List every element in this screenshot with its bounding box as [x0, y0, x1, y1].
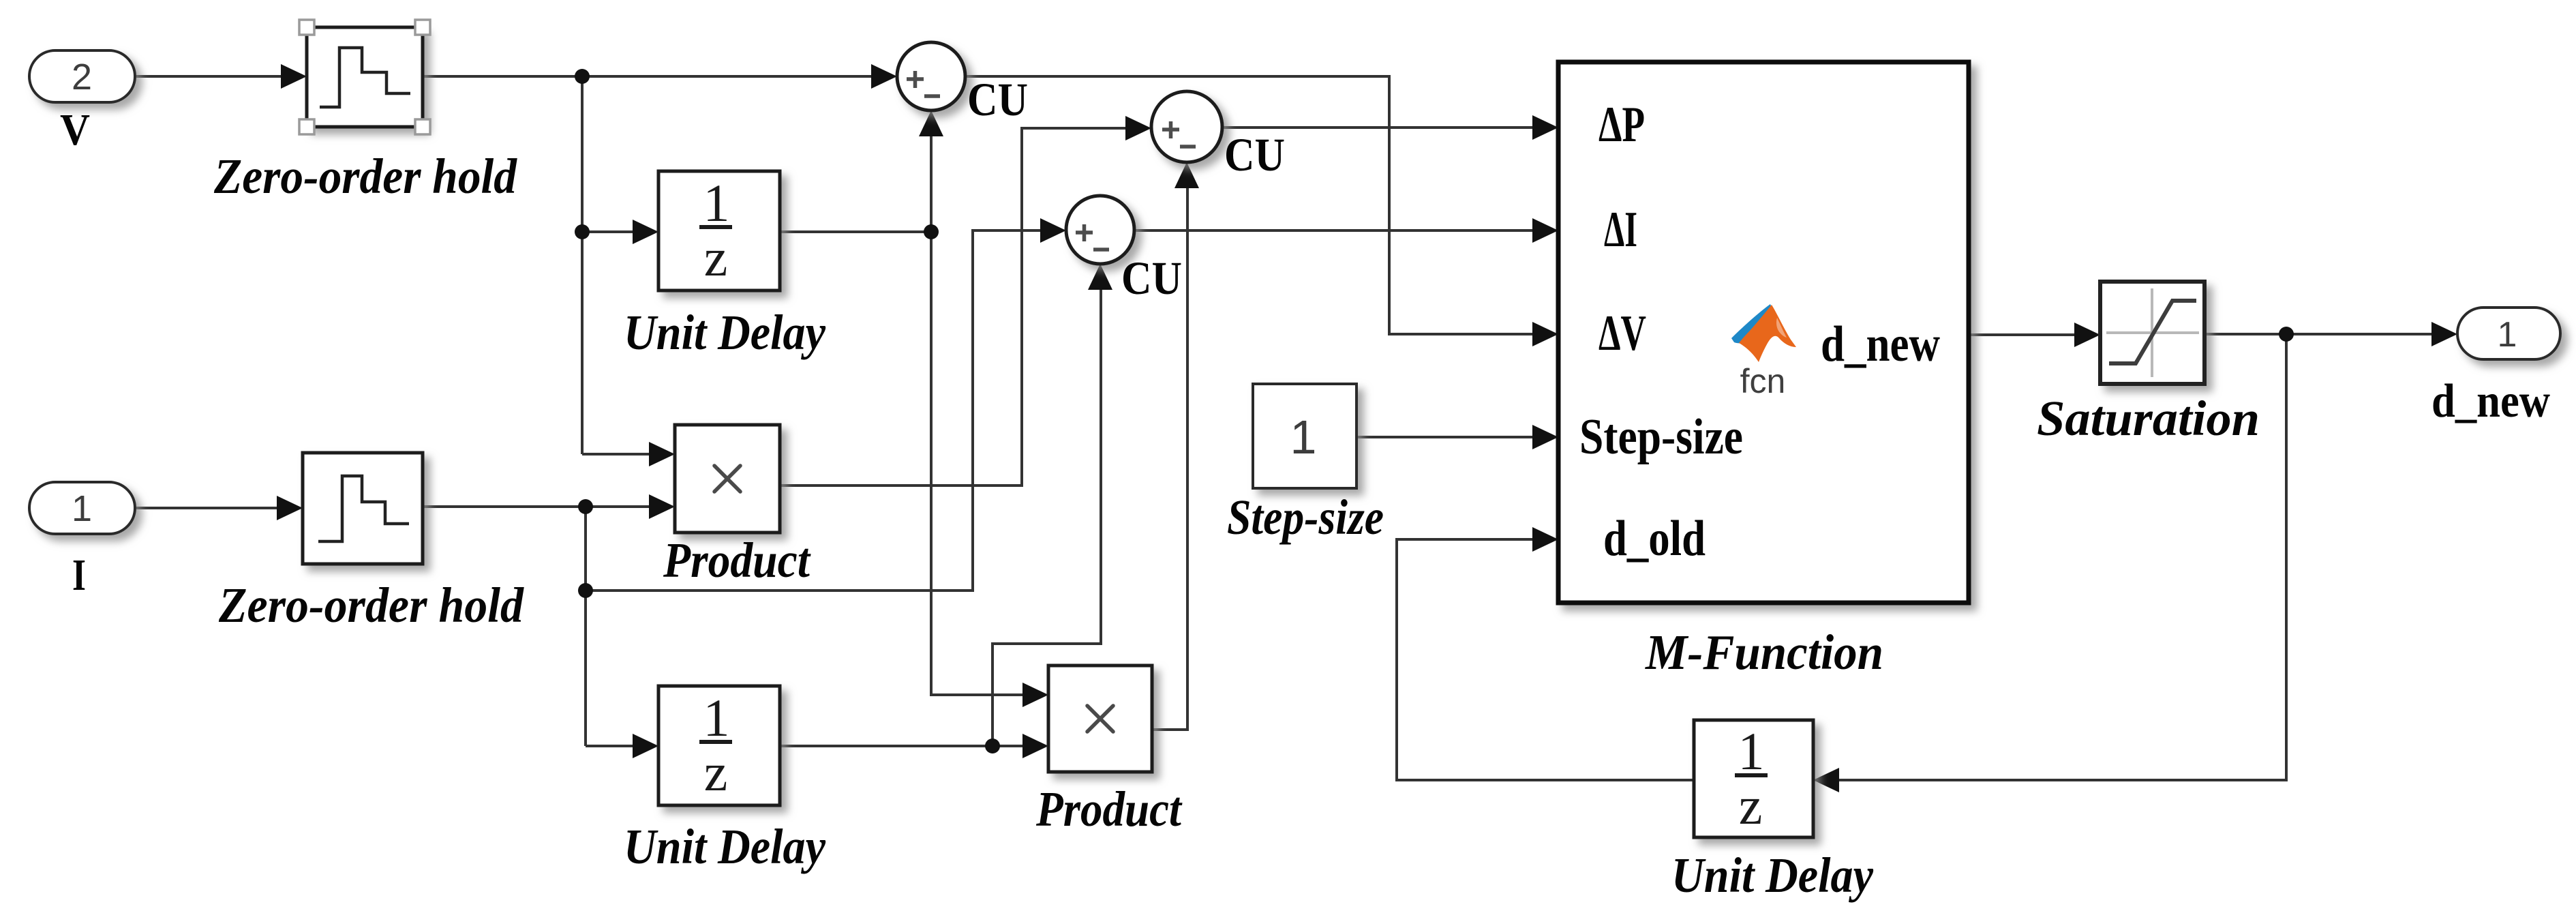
svg-text:1: 1 [72, 488, 92, 529]
svg-text:Zero-order hold: Zero-order hold [218, 578, 524, 633]
arrowhead into dI port [1532, 218, 1558, 243]
svg-text:ΔI: ΔI [1604, 202, 1637, 258]
wire V corner into Product1 input1 [582, 453, 652, 455]
arrowhead into sum CU3 bottom [1088, 264, 1112, 290]
arrowhead into Unit Delay top [633, 220, 658, 244]
junction node E [2279, 327, 2294, 342]
arrowhead into Product1 input2 [649, 494, 675, 519]
wire Unit Delay top output to node B [780, 230, 931, 233]
svg-text:ΔP: ΔP [1598, 97, 1645, 153]
svg-text:1: 1 [1738, 721, 1765, 781]
svg-text:ΔV: ΔV [1598, 305, 1646, 361]
arrowhead into Product1 input1 [649, 442, 675, 466]
svg-text:Unit Delay: Unit Delay [624, 819, 826, 874]
junction node D [985, 738, 1000, 753]
wire node B up to sum CU1 minus input [930, 136, 933, 232]
wire node C2 to sum CU3 left input [586, 230, 1043, 591]
inport 1 (I) [29, 482, 135, 534]
svg-text:Product: Product [663, 533, 811, 588]
arrowhead into Product2 input1 [1022, 683, 1048, 707]
arrowhead into Zero-order hold V [281, 64, 307, 89]
svg-text:CU: CU [1224, 129, 1285, 181]
wire I inport to Zero-order hold2 [135, 507, 279, 509]
zero-order hold ZOH1 [299, 20, 430, 134]
svg-text:z: z [1739, 776, 1763, 835]
svg-text:CU: CU [1121, 252, 1182, 304]
junction node A2 [575, 224, 590, 239]
inport 2 (V) [29, 50, 135, 102]
wire sum CU3 output to dI port of M-Function [1134, 229, 1535, 232]
arrowhead into dP port [1532, 115, 1558, 140]
svg-text:V: V [60, 105, 90, 155]
svg-text:Step-size: Step-size [1227, 490, 1384, 545]
junction node C2 [578, 583, 593, 598]
wire feedback from node E down and left to Unit Delay input [1839, 334, 2286, 780]
svg-text:1: 1 [703, 688, 730, 747]
wire node C down into Unit Delay bottom input [586, 745, 635, 747]
product P1 [675, 425, 780, 533]
arrowhead into sum CU1 left [871, 64, 897, 89]
wire Zero-order hold2 output to Product1 input2 [423, 505, 652, 508]
wire node C vertical I line [584, 507, 587, 746]
svg-text:Product: Product [1035, 781, 1183, 837]
wire V inport to Zero-order hold [135, 75, 282, 78]
svg-text:d_new: d_new [1821, 316, 1940, 372]
junction node A [575, 69, 590, 84]
arrowhead into sum CU2 left [1125, 116, 1151, 140]
wire Unit Delay bottom output to Product2 input2 [780, 745, 1025, 747]
product P2 [1048, 666, 1152, 772]
svg-text:Zero-order hold: Zero-order hold [213, 149, 517, 204]
wire node D up to sum CU3 minus input [992, 290, 1101, 746]
wire Product1 output up to sum CU2 left input [780, 128, 1128, 486]
wire node A vertical V line [581, 76, 584, 454]
constant Step-size [1253, 384, 1357, 488]
arrowhead into sum CU2 bottom [1175, 162, 1199, 188]
saturation block [2100, 282, 2204, 384]
arrowhead into Unit Delay bottom [633, 734, 658, 758]
svg-text:CU: CU [967, 74, 1028, 125]
wire Unit Delay feedback output to d_old port [1397, 539, 1694, 780]
svg-text:d_new: d_new [2431, 375, 2550, 428]
svg-text:z: z [704, 743, 728, 802]
svg-text:Saturation: Saturation [2037, 391, 2260, 446]
arrowhead into Saturation [2074, 323, 2100, 347]
arrowhead into dV port [1532, 322, 1558, 346]
svg-text:1: 1 [703, 173, 730, 233]
arrowhead into Step-size port [1532, 425, 1558, 449]
svg-text:2: 2 [72, 57, 92, 98]
unit delay UD1 (top) [658, 171, 780, 290]
svg-text:1: 1 [1290, 410, 1317, 464]
zero-order hold ZOH2 [303, 453, 423, 564]
svg-text:Unit Delay: Unit Delay [1671, 848, 1874, 903]
arrowhead into Product2 input2 [1022, 734, 1048, 758]
svg-text:z: z [704, 228, 728, 287]
svg-text:Step-size: Step-size [1579, 409, 1743, 465]
wire M-Function d_new output to Saturation [1969, 333, 2077, 336]
svg-text:1: 1 [2498, 315, 2517, 355]
wire node A2 to Unit Delay top input [582, 230, 635, 233]
fcn MATLAB logo [1731, 304, 1796, 400]
junction node B [924, 224, 939, 239]
svg-text:fcn: fcn [1740, 362, 1786, 400]
arrowhead into d_old port [1532, 527, 1558, 552]
sum CU1 [897, 42, 965, 110]
wire Saturation output to outport d_new [2204, 333, 2434, 335]
unit delay UD3 (feedback) [1694, 720, 1813, 837]
sum CU2 [1151, 91, 1222, 162]
svg-text:Unit Delay: Unit Delay [624, 305, 826, 360]
M-Function block U1 [1558, 62, 1969, 603]
wire Zero-order hold to sum CU1 left input [423, 75, 874, 78]
arrowhead into sum CU3 left [1040, 218, 1066, 243]
junction node C [578, 499, 593, 514]
wire Product2 output up to sum CU2 minus input [1152, 188, 1187, 730]
wire node B down to Product2 input1 [931, 232, 1025, 695]
svg-text:d_old: d_old [1603, 511, 1706, 567]
svg-text:M-Function: M-Function [1645, 625, 1883, 680]
wire sum CU1 output to dV port of M-Function [965, 76, 1535, 334]
sum CU3 [1066, 196, 1134, 264]
arrowhead into sum CU1 bottom [919, 110, 943, 136]
unit delay UD2 (bottom left) [658, 686, 780, 805]
svg-text:I: I [72, 550, 86, 600]
wire sum CU2 output to dP port of M-Function [1222, 126, 1535, 129]
arrowhead into Zero-order hold2 [277, 496, 303, 520]
arrowhead into Unit Delay feedback (points left) [1813, 768, 1839, 792]
outport 1 (d_new) [2457, 308, 2560, 359]
arrowhead into outport d_new [2431, 322, 2457, 346]
wire Step-size constant to Step-size port [1357, 436, 1535, 438]
